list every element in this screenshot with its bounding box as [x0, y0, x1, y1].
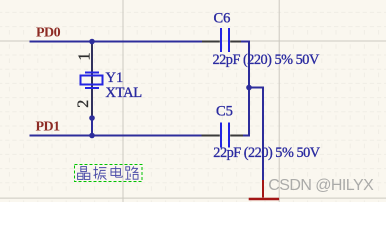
svg-text:22pF (220) 5% 50V: 22pF (220) 5% 50V: [213, 145, 320, 161]
svg-text:XTAL: XTAL: [106, 85, 142, 101]
svg-text:C5: C5: [216, 104, 233, 120]
svg-text:PD0: PD0: [36, 26, 61, 41]
svg-text:CSDN @HILYX: CSDN @HILYX: [268, 177, 374, 194]
svg-text:C6: C6: [214, 10, 231, 26]
svg-text:2: 2: [75, 100, 92, 108]
svg-text:PD1: PD1: [36, 120, 61, 135]
svg-text:22pF (220) 5% 50V: 22pF (220) 5% 50V: [213, 52, 320, 68]
svg-text:Y1: Y1: [106, 70, 124, 86]
svg-text:1: 1: [75, 52, 94, 60]
